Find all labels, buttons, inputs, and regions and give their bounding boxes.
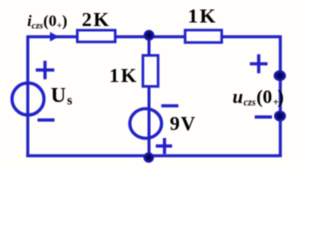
node dot top junction <box>144 30 155 41</box>
wire bottom <box>26 154 281 157</box>
node dot right lower terminal <box>274 111 286 122</box>
voltage source 9V circle <box>130 109 162 139</box>
wire middle branch <box>148 35 151 157</box>
minus sign 9V <box>161 104 178 107</box>
node dot bottom junction <box>143 152 154 163</box>
minus sign right port <box>255 115 272 118</box>
minus sign Us <box>38 118 55 121</box>
svg-text:9V: 9V <box>170 113 196 135</box>
wire top-left corner segment <box>28 37 77 82</box>
resistor 1K middle body <box>143 55 158 86</box>
wire top-right corner and right side <box>222 37 280 156</box>
node dot right upper terminal <box>274 70 286 81</box>
resistor 1K top body <box>185 30 222 42</box>
current arrow i <box>50 32 59 42</box>
svg-text:1K: 1K <box>188 6 217 28</box>
svg-text:2K: 2K <box>82 9 111 31</box>
plus sign right port <box>250 54 268 73</box>
resistor 2K body <box>77 30 115 42</box>
plus sign Us <box>36 61 55 79</box>
wire top between 2K and 1K <box>116 35 185 38</box>
wire left lower segment <box>26 82 29 157</box>
svg-text:1K: 1K <box>109 65 138 87</box>
voltage source Us circle <box>12 83 44 115</box>
plus sign 9V <box>156 138 172 154</box>
